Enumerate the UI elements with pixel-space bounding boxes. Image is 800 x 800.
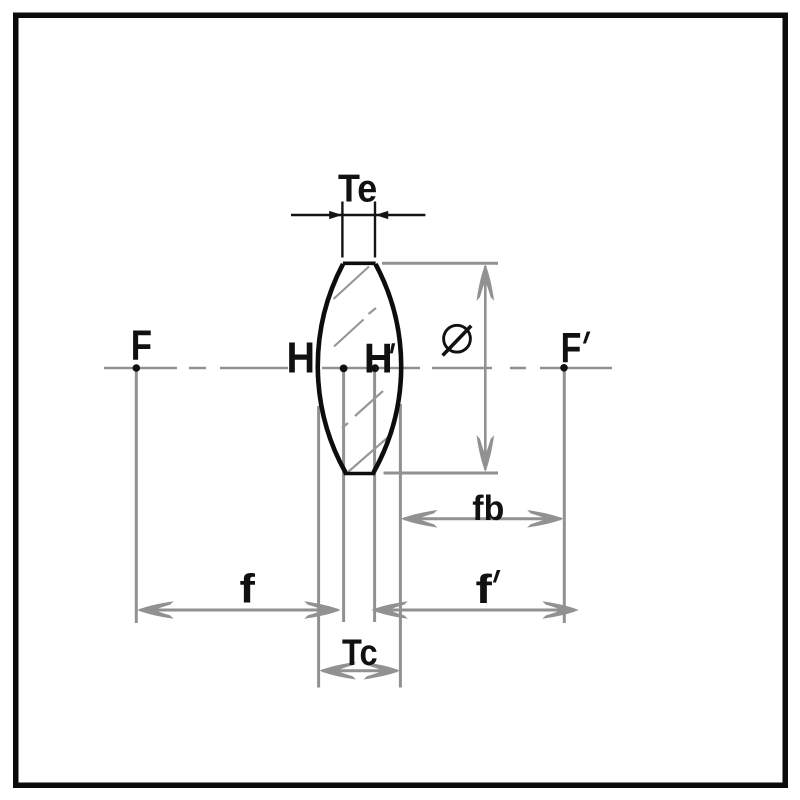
label f' prime mark (493, 570, 501, 583)
hatch lower long (348, 436, 390, 473)
extension line below H' (373, 370, 376, 622)
hatch upper short (369, 308, 377, 314)
node F' dot (560, 364, 568, 372)
glass reflection hatch lines (334, 267, 391, 473)
Tc dimension line (322, 669, 397, 672)
Te dimension line (291, 214, 425, 217)
arrowhead diameter up (477, 264, 495, 301)
lens outline: top flat edge (343, 261, 376, 265)
wire: axis segment 4 (540, 367, 612, 370)
extension line diameter bottom (384, 472, 499, 475)
svg-text:H: H (287, 333, 316, 382)
wire: axis segment 2 (220, 367, 288, 370)
svg-text:H: H (364, 335, 393, 382)
arrowhead f left (137, 601, 174, 619)
label F' prime mark (583, 332, 591, 344)
svg-text:Tc: Tc (342, 632, 378, 673)
node H' dot (371, 364, 379, 372)
f' dimension line (374, 609, 564, 612)
extension line diameter top (382, 262, 498, 265)
extension line below H (342, 370, 345, 622)
hatch mid-lower (355, 391, 383, 416)
fb dimension line (404, 517, 561, 520)
wire: axis segment 3 (432, 367, 492, 370)
svg-text:fb: fb (472, 490, 504, 529)
hatch upper long (334, 267, 370, 300)
node H dot (340, 365, 348, 373)
hatch small dash (342, 423, 348, 428)
Te extension line right (374, 202, 376, 258)
extension line below F' (563, 369, 566, 623)
diameter symbol circle (444, 325, 471, 352)
arrowhead Tc left (320, 662, 357, 680)
arrowhead diameter down (477, 435, 495, 472)
hatch middle (334, 320, 364, 347)
label H' prime mark (390, 343, 395, 353)
wire: axis short dash 2 (510, 367, 526, 370)
arrowhead f right (304, 601, 341, 619)
extension line below F (135, 370, 138, 623)
arrowhead f' right (overshoots F' line) (542, 601, 579, 619)
f dimension line (140, 609, 338, 612)
arrowhead f' left (371, 601, 408, 619)
optical axis (dash-dot centerline) (104, 367, 612, 370)
svg-text:f: f (240, 566, 256, 612)
node F dot (133, 364, 141, 372)
extension line Tc left (317, 406, 320, 688)
arrowhead Te right (points left) (375, 211, 388, 219)
arrowhead fb left (401, 510, 438, 528)
diameter symbol slash (443, 326, 472, 356)
svg-text:f: f (476, 566, 493, 612)
Te extension line left (341, 202, 343, 258)
arrowhead Te left (points right) (329, 211, 342, 219)
lens outline: left arc (318, 264, 346, 473)
wire: axis segment 1 (104, 367, 177, 370)
lens outline: bottom flat edge (344, 472, 376, 476)
lens outline: right arc (374, 264, 402, 473)
extension line Tc right (399, 404, 402, 688)
extension lines (grey verticals) (136, 263, 564, 687)
arrowhead Tc right (364, 662, 401, 680)
wire: axis short dash 1 (189, 367, 206, 370)
svg-text:F: F (561, 325, 582, 373)
svg-text:Te: Te (338, 166, 377, 210)
diameter dimension vertical line (484, 266, 487, 470)
svg-text:F: F (131, 323, 152, 370)
wire: axis segment through lens (322, 367, 420, 370)
arrowhead fb right (527, 510, 564, 528)
